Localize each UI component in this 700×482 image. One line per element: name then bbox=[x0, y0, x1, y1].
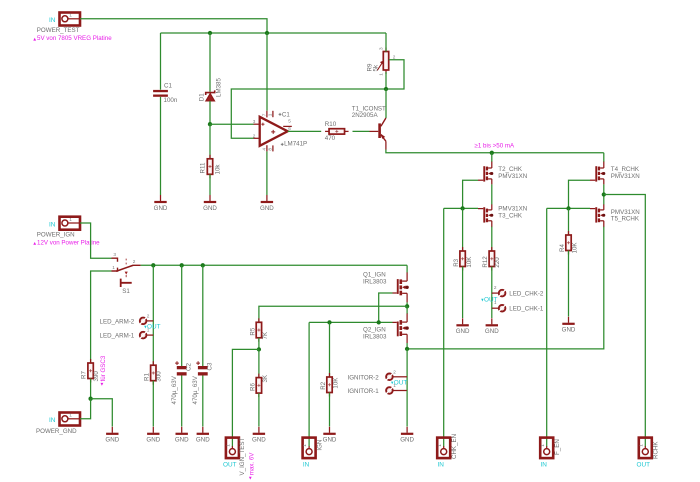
wire node to R11 bbox=[209, 124, 211, 159]
wire rail corner to Q1 drain bbox=[406, 265, 408, 272]
svg-text:4: 4 bbox=[261, 148, 266, 151]
wire node to R4 bbox=[568, 208, 570, 235]
wire T5 gate line bbox=[547, 207, 590, 209]
svg-text:PMV31XN: PMV31XN bbox=[611, 173, 640, 180]
connector V_IGN_TEST bbox=[223, 437, 246, 475]
wire POWER_GND to node bbox=[80, 399, 91, 419]
svg-text:2: 2 bbox=[253, 133, 256, 138]
ground C3 bbox=[196, 427, 210, 444]
node rail-opamp bbox=[265, 31, 269, 35]
wire op-amp V- to GND bbox=[266, 151, 268, 195]
svg-text:R11: R11 bbox=[200, 162, 207, 173]
wire node to GND bbox=[91, 399, 113, 427]
svg-text:3: 3 bbox=[253, 119, 256, 124]
capacitor C1 bbox=[153, 82, 178, 104]
wire node to op-amp pin3 bbox=[210, 123, 254, 125]
svg-text:T3_CHK: T3_CHK bbox=[498, 212, 523, 219]
svg-text:300: 300 bbox=[156, 371, 163, 382]
resistor R7 bbox=[81, 359, 100, 383]
svg-text:C3: C3 bbox=[207, 362, 214, 370]
resistor R12 bbox=[482, 247, 501, 271]
label fuer GSC3 bbox=[100, 355, 107, 386]
svg-text:IGNITOR-2: IGNITOR-2 bbox=[348, 374, 380, 381]
wire rail to op-amp V+ bbox=[266, 33, 268, 111]
connector IGN bbox=[302, 438, 323, 469]
svg-text:1: 1 bbox=[378, 73, 383, 76]
svg-text:220: 220 bbox=[494, 257, 501, 268]
wire Q1 gate drop bbox=[379, 293, 393, 322]
connector POWER_TEST bbox=[37, 13, 80, 35]
wire C1 to GND bbox=[160, 97, 162, 195]
wire op-amp out to R10 bbox=[288, 130, 322, 132]
wire R9 wiper loop bbox=[386, 60, 404, 89]
wire F_EN drop bbox=[546, 208, 548, 446]
svg-text:OUT: OUT bbox=[223, 462, 237, 469]
ground POWER_GND net bbox=[105, 427, 119, 444]
wire D1 to node bbox=[209, 101, 211, 124]
svg-text:max. 6V: max. 6V bbox=[248, 452, 255, 476]
pin LED_ARM-1 bbox=[100, 328, 154, 340]
ground R2 bbox=[323, 427, 337, 444]
transistor T1_ICONST 2N2905A bbox=[352, 105, 386, 149]
svg-text:R10: R10 bbox=[325, 121, 337, 128]
ground R11 bbox=[203, 195, 217, 212]
svg-text:OUT: OUT bbox=[637, 462, 651, 469]
svg-text:2: 2 bbox=[393, 369, 396, 374]
wire Q1 source to node bbox=[406, 302, 408, 306]
wire R9 to node bbox=[385, 72, 387, 89]
svg-text:6: 6 bbox=[288, 126, 291, 131]
resistor R3 bbox=[453, 247, 473, 271]
wire T4 source to T5 drain bbox=[603, 184, 605, 204]
svg-text:R7: R7 bbox=[81, 371, 88, 379]
wire node to V_IGN_TEST bbox=[232, 349, 259, 446]
svg-text:10k: 10k bbox=[215, 164, 222, 175]
potentiometer R9 bbox=[367, 47, 396, 76]
svg-text:R12: R12 bbox=[482, 256, 489, 268]
svg-text:C2: C2 bbox=[186, 363, 193, 371]
svg-text:2: 2 bbox=[147, 314, 150, 319]
wire T1 emitter to current rail bbox=[386, 150, 604, 153]
wire S1 pin2 to bottom rail bbox=[141, 264, 408, 266]
svg-text:F_EN: F_EN bbox=[554, 439, 561, 455]
svg-text:R1: R1 bbox=[143, 373, 150, 381]
wire top rail bbox=[161, 32, 387, 34]
transistor T4_RCHK PMV31XN bbox=[590, 162, 640, 185]
svg-text:für GSC3: für GSC3 bbox=[100, 355, 107, 381]
svg-text:R6: R6 bbox=[249, 383, 256, 391]
svg-text:LED_CHK-2: LED_CHK-2 bbox=[509, 291, 544, 298]
svg-text:470µ_63V: 470µ_63V bbox=[171, 375, 178, 404]
wire T4 gate bbox=[569, 180, 591, 208]
svg-text:1: 1 bbox=[268, 113, 273, 116]
resistor R10 bbox=[325, 121, 349, 142]
wire node to R6 bbox=[258, 349, 260, 377]
wire S1 pin1 to R7 bbox=[91, 271, 112, 363]
pin IGNITOR-1 bbox=[348, 383, 408, 395]
node R5/R6 bbox=[257, 347, 261, 351]
wire rail corner to T4 drain bbox=[603, 153, 605, 162]
svg-text:V_IGN_TEST: V_IGN_TEST bbox=[239, 437, 246, 475]
wire sense line1 bbox=[259, 306, 407, 322]
node D1/R11/op-amp bbox=[208, 122, 212, 126]
svg-text:LM741P: LM741P bbox=[284, 141, 307, 148]
wire rail to T2 drain bbox=[491, 153, 493, 162]
wire R4 to GND bbox=[568, 251, 570, 317]
svg-text:2N2905A: 2N2905A bbox=[352, 112, 379, 119]
svg-text:RCHK: RCHK bbox=[653, 441, 660, 459]
svg-text:IN: IN bbox=[541, 462, 548, 469]
wire rail to C2 bbox=[181, 265, 183, 366]
label 12V von Power Platine bbox=[33, 242, 36, 245]
svg-text:5: 5 bbox=[288, 119, 291, 124]
resistor R6 bbox=[249, 374, 269, 398]
svg-text:POWER_TEST: POWER_TEST bbox=[37, 27, 80, 34]
node T4/T5 bbox=[602, 192, 606, 196]
svg-text:470: 470 bbox=[325, 135, 336, 142]
svg-text:C1: C1 bbox=[164, 82, 172, 89]
svg-text:IN: IN bbox=[438, 462, 445, 469]
svg-text:2: 2 bbox=[393, 54, 396, 59]
svg-text:IGNITOR-1: IGNITOR-1 bbox=[348, 388, 380, 395]
capacitor C3 bbox=[192, 361, 214, 404]
label max. 6V bbox=[248, 452, 255, 480]
node gate/R3 bbox=[460, 206, 464, 210]
label 5V von 7805 VREG Platine bbox=[33, 38, 36, 41]
capacitor C2 bbox=[171, 361, 193, 404]
wire R12 to LED_CHK pins and GND bbox=[491, 267, 493, 319]
svg-text:10K: 10K bbox=[572, 242, 579, 254]
zener diode D1 LM385 bbox=[199, 78, 223, 102]
svg-text:IN: IN bbox=[49, 17, 56, 24]
svg-text:IRL3803: IRL3803 bbox=[363, 278, 387, 285]
svg-text:LM385: LM385 bbox=[215, 78, 222, 97]
wire rail to C1 bbox=[160, 33, 162, 90]
node rail-T2 bbox=[490, 151, 494, 155]
ground IC1 bbox=[260, 195, 274, 212]
svg-text:LED_ARM-1: LED_ARM-1 bbox=[100, 333, 135, 340]
wire rail to C3 bbox=[202, 265, 204, 366]
ground LED_CHK bbox=[485, 318, 499, 335]
svg-text:3: 3 bbox=[378, 47, 383, 50]
transistor T2_CHK PMV31XN bbox=[478, 162, 527, 185]
svg-text:3: 3 bbox=[113, 252, 116, 257]
svg-text:2: 2 bbox=[133, 259, 136, 264]
wire R11 to GND bbox=[209, 174, 211, 195]
wire R1 to GND bbox=[152, 381, 154, 427]
resistor R5 bbox=[249, 318, 269, 342]
wire node to T1 collector bbox=[385, 89, 387, 118]
wire LED_ARM branch to R1 bbox=[152, 265, 154, 365]
pin LED_CHK-1 bbox=[492, 300, 544, 313]
wire R6 to GND bbox=[258, 393, 260, 426]
pin LED_ARM-2 bbox=[100, 314, 161, 331]
wire rail to D1 bbox=[209, 33, 211, 92]
transistor T3_CHK PMV31XN bbox=[478, 204, 527, 227]
wire T3 source to R12 bbox=[491, 227, 493, 251]
svg-text:100n: 100n bbox=[164, 97, 178, 104]
ground R3 bbox=[456, 318, 470, 335]
node line2/R2 bbox=[327, 320, 331, 324]
svg-text:5V von 7805 VREG Platine: 5V von 7805 VREG Platine bbox=[37, 35, 112, 42]
wire R2 drop bbox=[329, 322, 331, 377]
node rail-D1 bbox=[208, 31, 212, 35]
svg-text:T5_RCHK: T5_RCHK bbox=[611, 216, 640, 223]
wire C2 to GND bbox=[181, 376, 183, 427]
svg-text:R2: R2 bbox=[320, 381, 327, 389]
svg-text:10K: 10K bbox=[466, 256, 473, 268]
wire T5 source down and left bbox=[407, 227, 604, 349]
transistor Q2_IGN IRL3803 bbox=[363, 313, 409, 343]
svg-text:PMV31XN: PMV31XN bbox=[498, 173, 527, 180]
connector CHK_EN bbox=[437, 434, 458, 469]
svg-text:C1: C1 bbox=[282, 112, 290, 119]
wire IGNITOR-1 to GND bbox=[406, 391, 408, 427]
svg-text:IN: IN bbox=[49, 221, 56, 228]
svg-text:1: 1 bbox=[393, 383, 396, 388]
wire POWER_TEST to V+ rail bbox=[80, 19, 267, 33]
resistor R4 bbox=[559, 231, 579, 255]
svg-text:IRL3803: IRL3803 bbox=[363, 333, 387, 340]
switch S1 bbox=[112, 252, 141, 295]
svg-text:POWER_IGN: POWER_IGN bbox=[37, 231, 75, 238]
wire feedback pin2 bbox=[231, 89, 386, 138]
resistor R2 bbox=[320, 373, 340, 397]
wire T2 source to T3 drain bbox=[491, 184, 493, 204]
svg-text:1: 1 bbox=[494, 300, 497, 305]
wire Q2 drain from node bbox=[406, 306, 408, 313]
wire R2 to GND bbox=[329, 393, 331, 427]
node line2/gate drop bbox=[377, 320, 381, 324]
svg-text:R5: R5 bbox=[249, 327, 256, 335]
pin LED_CHK-2 bbox=[481, 285, 544, 304]
svg-text:IN: IN bbox=[303, 462, 310, 469]
svg-text:IN: IN bbox=[49, 417, 56, 424]
resistor R11 bbox=[200, 155, 222, 179]
ground R1 bbox=[146, 427, 160, 444]
wire node down to IGNITOR pins bbox=[406, 349, 408, 391]
connector POWER_IGN bbox=[37, 217, 80, 239]
wire R7 to node bbox=[90, 379, 92, 399]
wire node to RCHK drop bbox=[604, 195, 646, 447]
svg-text:Q1_IGN: Q1_IGN bbox=[363, 271, 386, 278]
node R9/T1 bbox=[384, 87, 388, 91]
node gate/R4 bbox=[566, 206, 570, 210]
svg-text:LED_ARM-2: LED_ARM-2 bbox=[100, 318, 135, 325]
svg-text:470µ_63V: 470µ_63V bbox=[192, 375, 199, 404]
wire Q2 source to node bbox=[406, 343, 408, 349]
svg-text:CHK_EN: CHK_EN bbox=[451, 434, 458, 459]
pin IGNITOR-2 bbox=[348, 369, 408, 386]
transistor T5_RCHK PMV31XN bbox=[590, 204, 640, 227]
connector POWER_GND bbox=[36, 413, 80, 435]
resistor R1 bbox=[143, 361, 162, 385]
wire R3 to GND bbox=[462, 267, 464, 319]
wire POWER_IGN to S1 pin3 bbox=[80, 223, 112, 258]
node rail/C2 bbox=[180, 263, 184, 267]
svg-text:D1: D1 bbox=[199, 93, 206, 101]
svg-text:1: 1 bbox=[112, 265, 115, 270]
svg-text:S1: S1 bbox=[122, 288, 130, 295]
connector RCHK bbox=[637, 438, 660, 469]
op-amp IC1 LM741P bbox=[253, 111, 307, 152]
svg-text:≥1 bis >50 mA: ≥1 bis >50 mA bbox=[475, 143, 516, 150]
node rail/C3 bbox=[201, 263, 205, 267]
svg-text:2: 2 bbox=[494, 285, 497, 290]
svg-text:POWER_GND: POWER_GND bbox=[36, 428, 77, 435]
svg-text:5k: 5k bbox=[373, 64, 380, 71]
svg-text:IGN: IGN bbox=[316, 440, 323, 451]
ground C2 bbox=[175, 427, 189, 444]
svg-text:7: 7 bbox=[261, 113, 266, 116]
svg-text:R3: R3 bbox=[453, 258, 460, 266]
wire T2 gate bbox=[463, 180, 478, 208]
wire T3 gate line bbox=[444, 207, 478, 209]
wire rail to R9 bbox=[385, 33, 387, 52]
wire R10 to T1 base bbox=[353, 130, 370, 132]
svg-text:R4: R4 bbox=[559, 244, 566, 252]
svg-text:Q2_IGN: Q2_IGN bbox=[363, 326, 386, 333]
svg-text:8: 8 bbox=[268, 148, 273, 151]
svg-text:3K: 3K bbox=[262, 374, 269, 382]
svg-text:1: 1 bbox=[147, 328, 150, 333]
svg-text:LED_CHK-1: LED_CHK-1 bbox=[509, 306, 544, 313]
svg-text:10K: 10K bbox=[333, 377, 340, 389]
svg-text:7K: 7K bbox=[262, 331, 269, 339]
wire C3 to GND bbox=[202, 376, 204, 427]
node R7/POWER_GND bbox=[88, 397, 92, 401]
connector F_EN bbox=[540, 438, 561, 469]
node Q2/T5 line bbox=[405, 347, 409, 351]
ground R6 bbox=[252, 427, 266, 444]
wire R5 to node bbox=[258, 338, 260, 350]
wire line2 to IGN connector bbox=[308, 322, 310, 446]
ground IGNITOR bbox=[400, 427, 414, 444]
wire CHK_EN drop bbox=[443, 208, 445, 446]
node rail/LED_ARM bbox=[151, 263, 155, 267]
transistor Q1_IGN IRL3803 bbox=[363, 271, 409, 302]
ground C1 bbox=[154, 195, 168, 212]
ground R4 bbox=[562, 317, 576, 334]
wire node to R3 bbox=[462, 208, 464, 251]
node Q1/Q2 bbox=[405, 304, 409, 308]
wire gate line2 bbox=[309, 321, 392, 323]
